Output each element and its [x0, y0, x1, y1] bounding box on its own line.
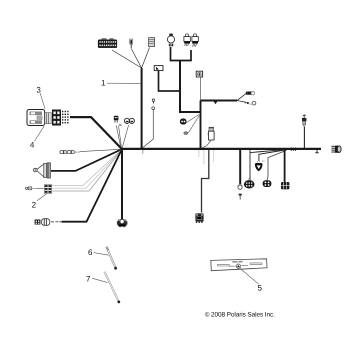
svg-text:2: 2 [32, 200, 37, 209]
screw item on T1 [152, 99, 155, 110]
trunk inline marks [291, 148, 295, 151]
bundle 2 block [44, 185, 52, 194]
grid connector below trunk [195, 213, 203, 223]
wire fan to terminal [132, 49, 142, 68]
leader label 5 [240, 268, 259, 284]
wire fork upper lead [237, 93, 247, 101]
wire branch to key plug [51, 149, 122, 171]
wire branch to connector 2 [62, 150, 122, 222]
connector 2 block [35, 220, 41, 225]
leader label 3 [40, 93, 45, 109]
wire vertical x200 [200, 101, 202, 150]
wire 2pin item lead a [116, 126, 121, 148]
box A [154, 66, 163, 71]
wire to round connector [267, 150, 287, 180]
svg-text:4: 4 [30, 141, 35, 150]
wire thin bundle lead 3 [53, 150, 122, 191]
fork ring terminal [245, 101, 256, 105]
eyelet at x240 [237, 184, 242, 189]
connector 3 pin field [62, 111, 69, 124]
wire headlight trunk drop [180, 61, 201, 113]
wire fan to resistor block [142, 48, 150, 69]
twin rings item [124, 118, 134, 123]
wire drop x240 [239, 149, 241, 184]
small oval item [184, 132, 188, 135]
wire fork lower lead [237, 101, 249, 103]
wire item C pigtail [202, 141, 211, 148]
bolt item 6 [106, 247, 117, 270]
drop connector U1 [117, 219, 128, 227]
wire thin bundle lead 1 [53, 150, 122, 186]
leader label 6 [94, 253, 109, 256]
wire stub b [203, 150, 205, 165]
wire thin bundle lead 2 [53, 150, 122, 188]
leader label 7 [92, 278, 108, 282]
wire bulb left drop [171, 47, 192, 61]
wire stub d [142, 150, 144, 154]
bundle 2 terminal [26, 187, 44, 190]
bulb R1 [184, 34, 190, 46]
grid connector at x284 [281, 182, 289, 189]
wire 2pin round pigtail [187, 115, 199, 123]
wire harness branch to connector 3 [70, 117, 122, 149]
connector 2 plug [42, 219, 62, 226]
resistor block item [149, 38, 155, 47]
svg-text:1: 1 [101, 78, 106, 87]
wire box A lead [159, 71, 180, 92]
item C bullet connector [208, 127, 215, 140]
clip on fork wire [213, 100, 218, 104]
round connector [263, 180, 272, 187]
wire oval item pigtail [188, 116, 199, 134]
wire main trunk [121, 148, 321, 150]
comb connector far right [331, 146, 341, 153]
screw item at x304 [302, 114, 306, 126]
wire box B lead [200, 78, 202, 102]
connector C1 multi-pin top-left [98, 38, 117, 47]
2pin connector near junction [114, 116, 122, 126]
svg-text:6: 6 [88, 248, 93, 257]
svg-text:© 2008 Polaris Sales Inc.: © 2008 Polaris Sales Inc. [205, 312, 275, 319]
bulb L [167, 34, 174, 47]
svg-text:3: 3 [36, 86, 41, 95]
connector 3 housing [27, 110, 45, 126]
wire to grid connector below trunk [202, 150, 209, 213]
wire stub a [198, 150, 200, 157]
bolt item 7 [104, 272, 120, 304]
svg-text:7: 7 [86, 274, 91, 283]
shield item [255, 161, 265, 172]
wire screw pigtail [143, 110, 154, 148]
connector 3 seal [45, 113, 51, 124]
leader label 2 [37, 194, 47, 201]
wire drop x284 [284, 149, 286, 182]
wire drop x304 [303, 127, 305, 149]
inline connector pair [60, 151, 80, 154]
leader label 4 [35, 126, 44, 141]
wire drop to oval connector [249, 150, 251, 181]
svg-text:5: 5 [258, 283, 263, 292]
decal item 5 [211, 259, 267, 271]
wire fan to connector C1 [112, 50, 142, 68]
screw below eyelet [239, 194, 242, 200]
wire stub c [213, 150, 215, 162]
box B [196, 71, 202, 77]
leader label 1 [107, 82, 141, 84]
oval multi-pin connector [244, 178, 255, 189]
wire 2pin item lead b [119, 126, 122, 148]
wire rings item lead [122, 125, 128, 148]
wire to shield item [259, 150, 285, 161]
fork terminal upper [246, 92, 255, 95]
wire inline connector lead [80, 149, 121, 151]
terminal pin item [130, 39, 133, 49]
wire vertical trunk T1 [141, 68, 143, 149]
wire bundle diagonal [250, 150, 283, 153]
bulb R2 [192, 34, 198, 47]
wire fork horizontal [201, 100, 238, 102]
key plug item [34, 163, 51, 178]
connector 3 pin block [52, 110, 61, 126]
trunk end tick [315, 150, 319, 153]
2pin round item [180, 119, 187, 125]
wire vertical drop to connector [121, 149, 123, 219]
